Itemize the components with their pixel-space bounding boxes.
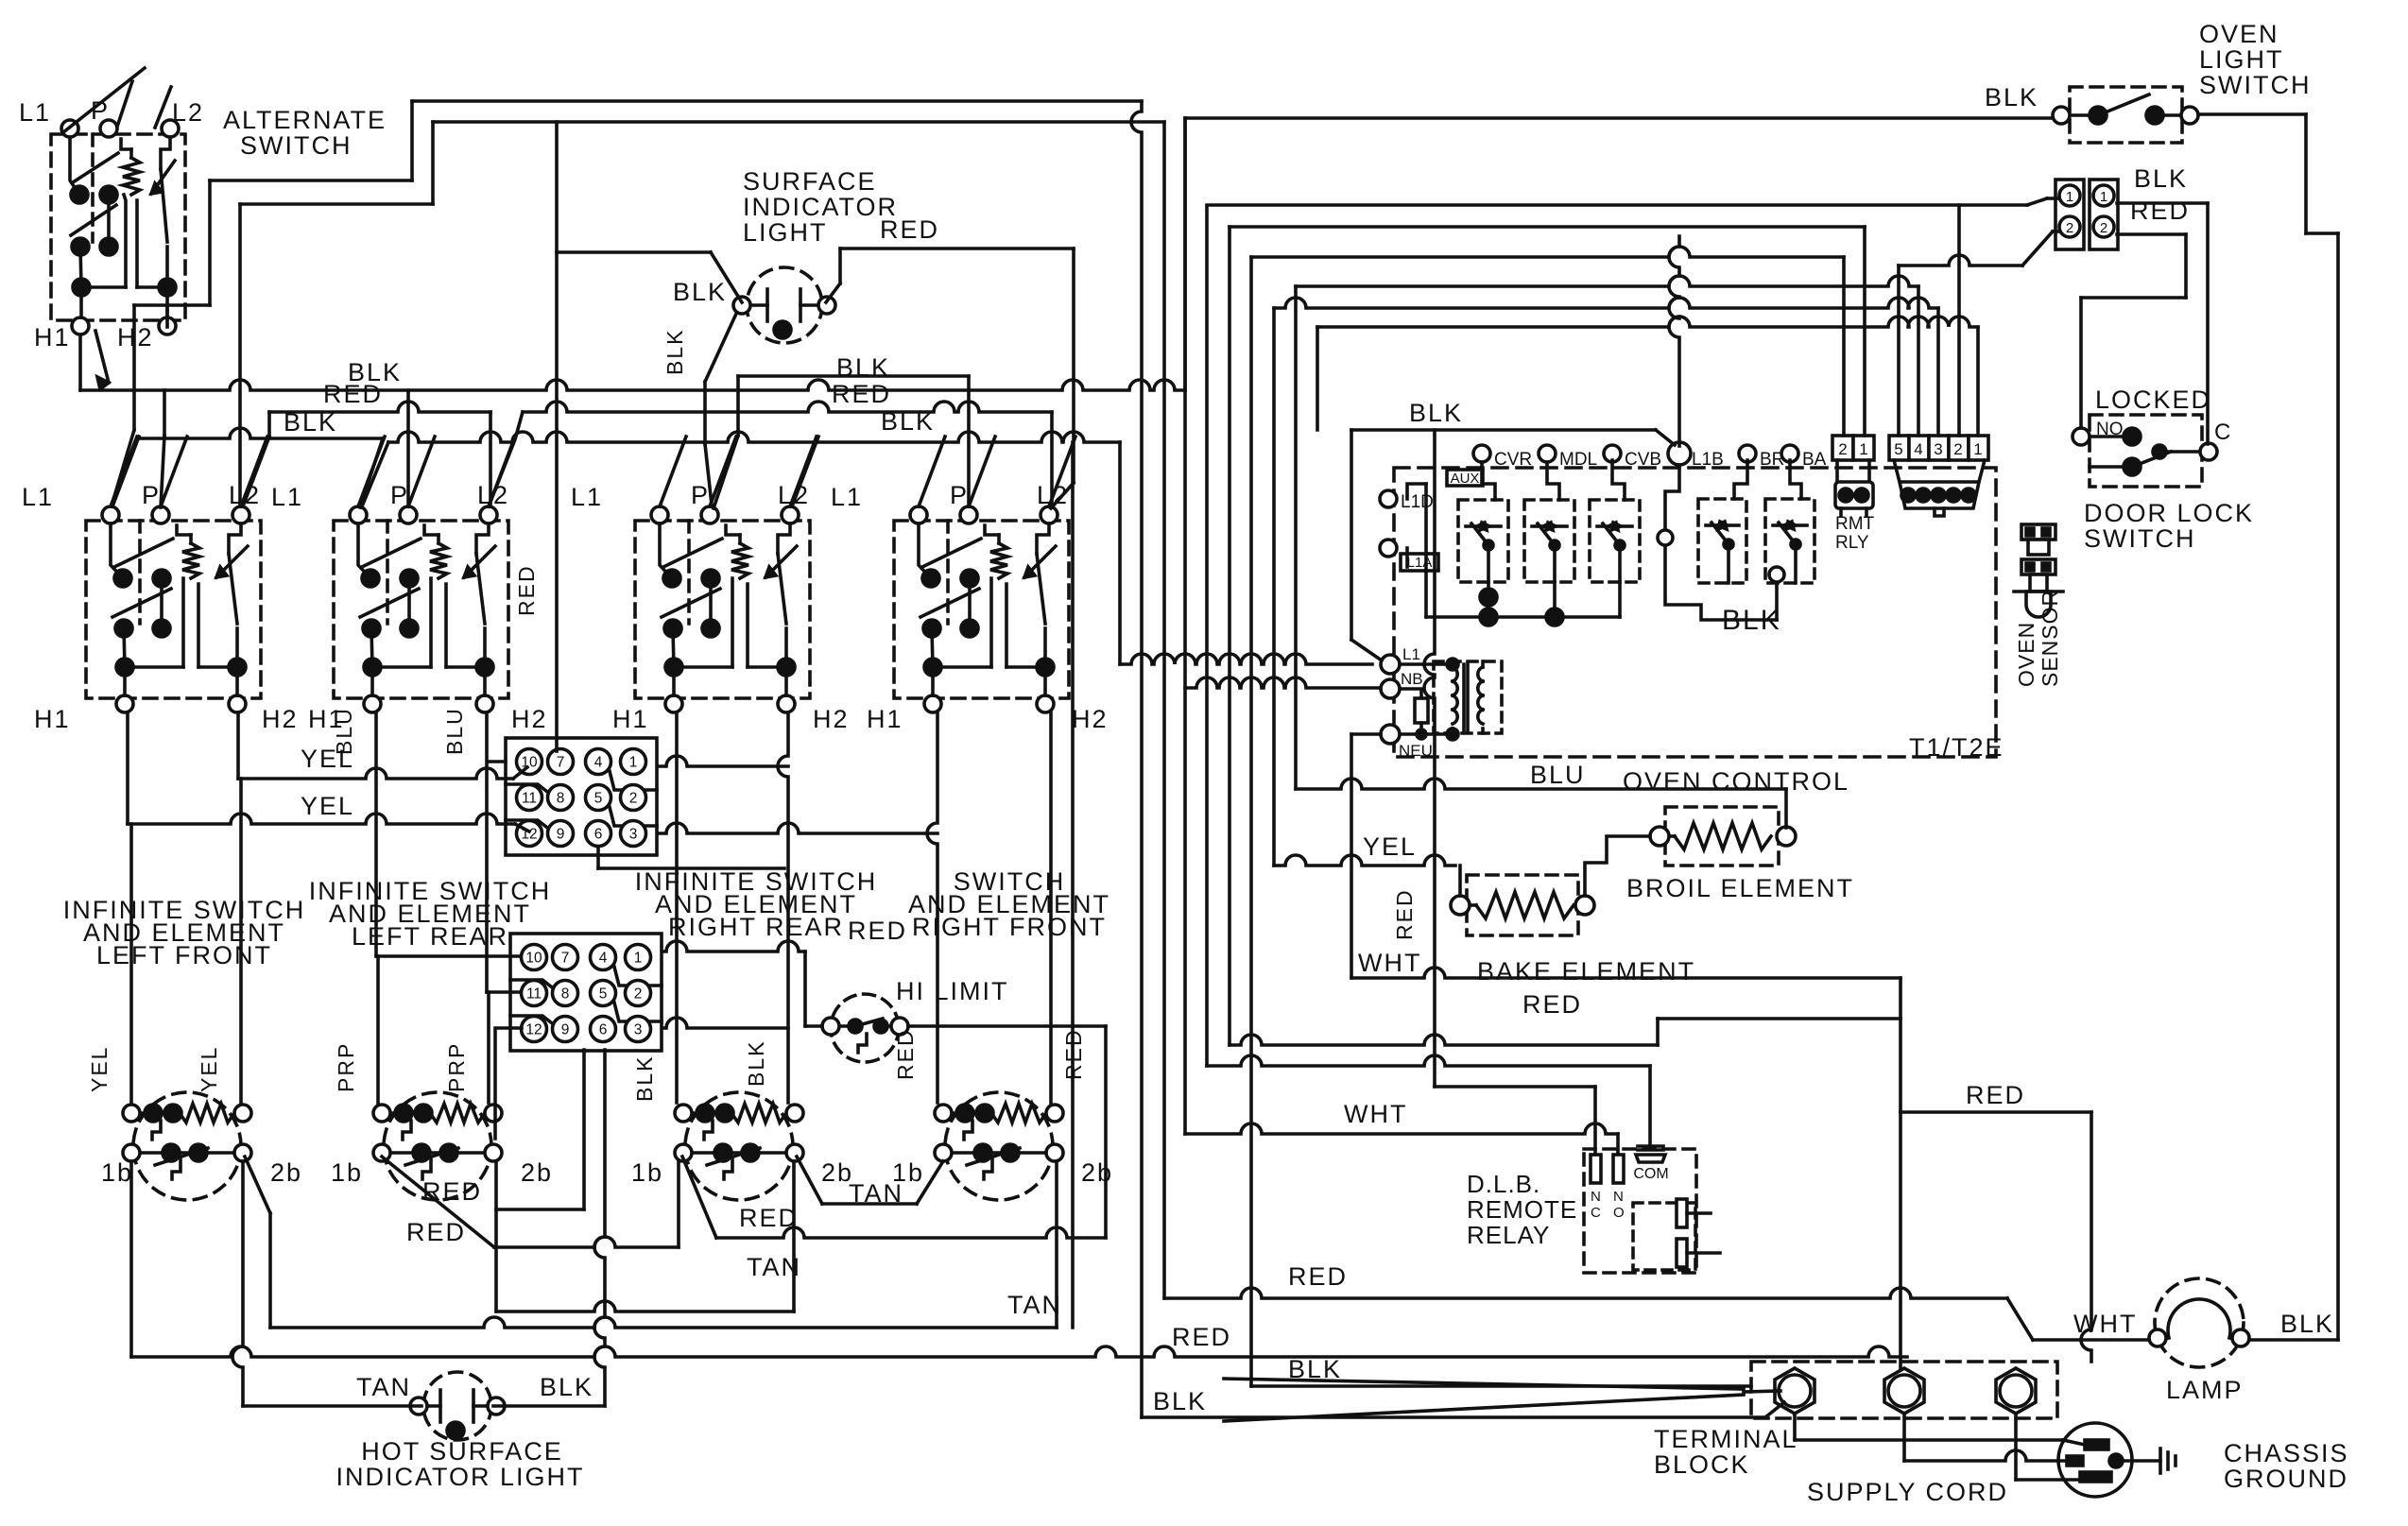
svg-text:BLK: BLK (2280, 1310, 2334, 1338)
label WHT lamp (2073, 1310, 2137, 1338)
wire surface left diag (705, 314, 736, 505)
labels box1 terminals (22, 481, 299, 733)
label BLK 1500 (1153, 1387, 1207, 1415)
wire H2 box4 drop (1049, 712, 1053, 1103)
connector 1/2 left (2055, 180, 2084, 249)
svg-text:H1: H1 (34, 323, 71, 351)
svg-text:COM: COM (1633, 1166, 1668, 1182)
svg-text:RED: RED (1172, 1323, 1231, 1351)
connector block 1 (506, 738, 657, 855)
oven light switch (2053, 87, 2198, 143)
label YEL 2 (301, 792, 354, 820)
svg-text:4: 4 (594, 755, 603, 771)
label BLK bus2 (836, 353, 890, 382)
svg-text:12: 12 (525, 1022, 542, 1038)
svg-text:1: 1 (629, 755, 638, 771)
terminal block (1751, 1362, 2057, 1418)
svg-text:BLK: BLK (673, 278, 727, 306)
svg-text:RELAY: RELAY (1467, 1221, 1550, 1249)
svg-text:YEL: YEL (197, 1046, 221, 1092)
label PRP rot2 (444, 1042, 469, 1092)
svg-text:6: 6 (594, 827, 603, 843)
label RED low (406, 1218, 466, 1246)
svg-text:O: O (1613, 1205, 1625, 1221)
svg-text:OVEN: OVEN (2014, 622, 2038, 687)
svg-text:L1: L1 (19, 98, 51, 127)
svg-text:P: P (91, 96, 110, 125)
svg-text:SWITCH: SWITCH (2084, 524, 2195, 553)
svg-text:L2: L2 (172, 98, 204, 127)
bus BLK low pair1 (112, 428, 383, 507)
wire H2 box2 PRP (487, 712, 520, 1103)
title right rear (635, 867, 877, 941)
svg-text:L1: L1 (22, 483, 54, 511)
wire s1 upper feeds (131, 779, 241, 1103)
label TAN hot (356, 1373, 411, 1401)
svg-text:YEL: YEL (301, 792, 354, 820)
oven control top terminals (1473, 442, 1827, 470)
svg-text:1: 1 (1859, 440, 1867, 458)
svg-text:ALTERNATE: ALTERNATE (223, 106, 387, 134)
wire s3-1b diag RED (682, 1157, 1106, 1238)
label BLK surface (673, 278, 727, 306)
circular infinite switch 3 (675, 1092, 803, 1200)
label BLK bus1 (348, 358, 402, 386)
label YEL 1 (301, 745, 354, 773)
label LOCKED (2095, 386, 2211, 414)
wire broil left (1585, 836, 1650, 896)
label BLK bus1b (284, 408, 337, 437)
svg-text:BLU: BLU (1530, 761, 1586, 789)
labels box2 terminals (271, 481, 548, 733)
wire BLK 1467 riser (1249, 257, 1253, 1386)
label RED surface (880, 215, 939, 244)
wire 5pin to 2pin (1899, 231, 2058, 436)
svg-text:BLU: BLU (442, 707, 467, 755)
wire RED 1106 (1230, 227, 1901, 1045)
bus BLK pair1 (80, 380, 1185, 507)
infinite switch box 4 (894, 506, 1069, 712)
svg-text:SENSOR: SENSOR (2038, 590, 2062, 687)
wire BLK to oven light (1185, 118, 2053, 390)
infinite switch box 1 (86, 506, 261, 712)
label HI LIMIT (896, 977, 1009, 1005)
label RED rot hilimit (1061, 1028, 1086, 1080)
label AUX box (1447, 470, 1483, 487)
label OVEN SENSOR (2014, 590, 2062, 687)
wire oven light to lamp drop (2198, 114, 2338, 1340)
svg-text:5: 5 (1894, 440, 1902, 458)
oven ctl junctions (1407, 484, 1620, 626)
svg-text:LAMP: LAMP (2166, 1376, 2244, 1404)
svg-text:BLK: BLK (1722, 605, 1781, 636)
label RED 1177 (1966, 1081, 2025, 1109)
alternate switch (51, 120, 185, 334)
svg-text:DOOR LOCK: DOOR LOCK (2084, 499, 2254, 527)
label RED rot 589 (514, 564, 539, 616)
wire hot light BLK side (493, 1404, 605, 1408)
oven ctl relay leads (1482, 460, 1801, 500)
svg-text:L1: L1 (1402, 645, 1420, 663)
svg-text:C: C (2214, 420, 2230, 445)
label TERMINAL BLOCK (1654, 1425, 1798, 1479)
svg-text:NEU: NEU (1399, 742, 1433, 760)
wire nested 346 (1317, 317, 1978, 436)
labels 1b 2b sw4 (892, 1158, 1113, 1187)
wire H2 box3 drop (778, 712, 788, 1103)
svg-text:3: 3 (634, 1022, 643, 1038)
supply plug (2058, 1423, 2132, 1497)
chassis ground (2123, 1449, 2176, 1473)
svg-text:H1: H1 (34, 705, 71, 733)
label BLK surface vert (662, 329, 687, 375)
label T1/T2E (1909, 733, 2004, 762)
label WHT mid (1358, 949, 1421, 977)
wire s2-2b drop (496, 1161, 794, 1312)
wire H1 box4 drop (927, 712, 937, 1103)
label BLK 1467 (1288, 1355, 1342, 1383)
broil element (1650, 807, 1796, 866)
label RED riser (739, 1204, 799, 1232)
label BLK inside (1722, 605, 1781, 636)
label RMT RLY (1835, 514, 1875, 553)
svg-text:TAN: TAN (1007, 1291, 1062, 1319)
svg-text:2: 2 (634, 986, 643, 1003)
label RED diag (422, 1177, 482, 1206)
svg-text:TAN: TAN (849, 1179, 903, 1208)
svg-text:7: 7 (561, 951, 570, 967)
supply cord (1224, 1379, 1744, 1421)
svg-text:1b: 1b (631, 1158, 663, 1187)
labels box3 terminals (571, 481, 850, 733)
label RED 1106 (1522, 990, 1582, 1019)
wire c3 block1 (659, 823, 937, 833)
wire L1 ovenctl (1120, 442, 1372, 664)
label LAMP (2166, 1376, 2244, 1404)
switch arms box2 (358, 437, 515, 506)
hi-limit switch (822, 994, 908, 1062)
label RED 1374 (1288, 1262, 1348, 1291)
wire alt H2 drop (165, 305, 169, 327)
wire NC lead long (1424, 430, 1595, 1155)
infinite switch box 2 (334, 506, 508, 712)
svg-text:1: 1 (2100, 189, 2107, 205)
svg-text:BA: BA (1802, 450, 1827, 470)
wire BLU broil (1296, 286, 1786, 828)
svg-text:RED: RED (739, 1204, 799, 1232)
relay box MDL (1524, 500, 1574, 582)
wire H1 box2 PRP (376, 712, 520, 1103)
svg-text:GROUND: GROUND (2224, 1465, 2348, 1493)
wire s1-2b drop TAN (232, 1161, 421, 1406)
circular infinite switch 1 (123, 1092, 251, 1200)
DLB relay box (1584, 1146, 1720, 1273)
wire BLK 1500 (1142, 1402, 1784, 1417)
svg-text:YEL: YEL (1363, 832, 1417, 861)
switch arms box3 (660, 437, 817, 506)
relay box BR (1698, 499, 1746, 583)
label OVEN LIGHT SWITCH (2199, 20, 2311, 99)
svg-text:WHT: WHT (1358, 949, 1421, 977)
wire hi limit right (908, 1026, 1106, 1238)
svg-text:HOT SURFACE: HOT SURFACE (361, 1437, 563, 1466)
svg-text:11: 11 (526, 986, 542, 1003)
wire nested 219 (1207, 198, 2058, 436)
svg-text:LIGHT: LIGHT (743, 218, 828, 247)
svg-text:RED: RED (1288, 1262, 1348, 1291)
connector block 2 (510, 934, 662, 1051)
title left front (63, 896, 305, 969)
svg-text:BLK: BLK (284, 408, 337, 437)
wire doorlock BLK (2117, 203, 2208, 444)
wire H1 box1 YEL (128, 712, 529, 832)
wire doorlock RED (2081, 234, 2186, 428)
svg-text:LIGHT: LIGHT (2199, 45, 2284, 74)
svg-text:PRP: PRP (444, 1042, 469, 1092)
svg-text:H2: H2 (262, 705, 299, 733)
wire nested 272 (1251, 247, 1844, 436)
svg-text:NB: NB (1401, 670, 1423, 688)
title left rear (309, 877, 551, 951)
svg-text:4: 4 (1914, 440, 1922, 458)
oven sensor (2014, 524, 2063, 617)
svg-text:8: 8 (557, 791, 565, 807)
svg-text:BLK: BLK (836, 353, 890, 382)
svg-text:H1: H1 (612, 705, 649, 733)
hot surface indicator light (410, 1372, 505, 1440)
svg-text:1b: 1b (101, 1158, 133, 1187)
labels 1b 2b sw2 (331, 1158, 553, 1187)
svg-text:RIGHT REAR: RIGHT REAR (668, 913, 844, 941)
svg-text:BLK: BLK (540, 1373, 593, 1401)
svg-text:2: 2 (629, 791, 638, 807)
svg-text:N: N (1613, 1189, 1624, 1205)
label BAKE ELEMENT (1477, 957, 1695, 986)
svg-text:BLK: BLK (662, 329, 687, 375)
label BLU (1530, 761, 1586, 789)
svg-text:11: 11 (522, 791, 537, 807)
bus RED pair1 (243, 402, 490, 506)
svg-text:L1B: L1B (1692, 450, 1724, 470)
svg-text:TAN: TAN (356, 1373, 411, 1401)
svg-text:L1: L1 (831, 483, 863, 511)
bus BLK low pair2 (362, 432, 1120, 1328)
svg-text:CVB: CVB (1625, 450, 1661, 470)
label BLK hot (540, 1373, 593, 1401)
label TAN upper (849, 1179, 903, 1208)
svg-text:RED: RED (514, 564, 539, 616)
svg-text:SWITCH: SWITCH (240, 131, 352, 160)
label BLU rot1 (332, 707, 356, 755)
wire YEL bake (1274, 308, 1460, 896)
svg-text:BLK: BLK (632, 1055, 657, 1102)
svg-text:1b: 1b (331, 1158, 363, 1187)
label DLB REMOTE RELAY (1467, 1170, 1577, 1249)
wire s1-1b drop (129, 1161, 133, 1357)
wire L1B riser (1669, 236, 1679, 446)
xfmr hookup (1400, 659, 1458, 740)
wire bus1 drop long (1131, 101, 1142, 1417)
label RED bottom (1172, 1323, 1231, 1351)
wire hex jumpers (1795, 1414, 2085, 1480)
wire supply tip (1744, 1391, 1780, 1392)
wire RED bottom long (131, 1346, 1907, 1357)
label YEL rot1 (87, 1046, 112, 1092)
svg-text:BROIL ELEMENT: BROIL ELEMENT (1626, 874, 1854, 902)
surface indicator light (733, 267, 835, 343)
relay box BA (1765, 499, 1815, 583)
connector 1/2 right (2090, 180, 2118, 249)
svg-text:BLK: BLK (744, 1040, 768, 1087)
label HOT SURFACE INDICATOR LIGHT (335, 1437, 584, 1491)
wire c10 left (490, 760, 506, 763)
wire s4-2b drop (1055, 1161, 1058, 1328)
wire hi limit left (805, 952, 822, 1026)
svg-text:BLK: BLK (2134, 164, 2188, 193)
svg-text:L1: L1 (571, 483, 603, 511)
label ALTERNATE SWITCH (223, 106, 387, 160)
svg-text:RED: RED (422, 1177, 482, 1206)
label SURFACE INDICATOR LIGHT (743, 167, 898, 247)
svg-text:2b: 2b (270, 1158, 302, 1187)
svg-text:N: N (1591, 1189, 1601, 1205)
terminal L1D (1380, 490, 1434, 512)
svg-text:5: 5 (594, 791, 603, 807)
wire BLK surface light (557, 122, 742, 751)
label TAN s4 (1007, 1291, 1062, 1319)
label YEL rot2 (197, 1046, 221, 1092)
label TAN mid (747, 1253, 801, 1281)
label OVEN CONTROL (1623, 767, 1849, 796)
svg-text:7: 7 (557, 755, 565, 771)
wire BLK 1467 (1251, 1384, 1751, 1388)
svg-text:AUX: AUX (1451, 471, 1480, 487)
svg-text:MDL: MDL (1559, 450, 1597, 470)
svg-text:TAN: TAN (747, 1253, 801, 1281)
svg-text:SWITCH: SWITCH (2199, 71, 2311, 99)
svg-text:REMOTE: REMOTE (1467, 1195, 1577, 1224)
labels BLK RED pins (2130, 164, 2190, 225)
svg-text:TERMINAL: TERMINAL (1654, 1425, 1798, 1453)
svg-text:BLOCK: BLOCK (1654, 1450, 1750, 1479)
svg-text:WHT: WHT (1344, 1100, 1407, 1128)
label RED rot b4a (893, 1028, 918, 1080)
svg-text:2: 2 (1838, 440, 1847, 458)
wire c12 block2 drop (495, 1028, 522, 1139)
label alternate switch terminals (19, 96, 204, 351)
svg-text:INDICATOR: INDICATOR (743, 193, 898, 221)
bus1 BLK top (412, 101, 1142, 204)
switch arms box1 (111, 437, 267, 506)
oven control box (1394, 468, 1996, 757)
svg-text:P: P (691, 481, 710, 509)
svg-text:P: P (390, 481, 409, 509)
wire step L1-box1 (112, 180, 412, 503)
svg-text:RED: RED (406, 1218, 466, 1246)
svg-text:OVEN CONTROL: OVEN CONTROL (1623, 767, 1849, 796)
svg-text:SUPPLY CORD: SUPPLY CORD (1807, 1478, 2008, 1506)
wire c1 block2 (664, 941, 805, 952)
svg-text:P: P (142, 481, 161, 509)
svg-text:RED: RED (1392, 888, 1417, 940)
label PRP rot1 (334, 1042, 358, 1092)
label SUPPLY CORD (1807, 1478, 2008, 1506)
L1B inner wiring (1658, 465, 1784, 620)
label BLU rot2 (442, 707, 467, 755)
label BLK lamp (2280, 1310, 2334, 1338)
door lock switch (2073, 415, 2217, 487)
svg-text:H2: H2 (511, 705, 548, 733)
svg-text:2: 2 (2066, 220, 2073, 236)
svg-text:2b: 2b (1081, 1158, 1113, 1187)
svg-text:RED: RED (848, 917, 907, 945)
alt switch arms (63, 68, 171, 132)
wire H2 box1 YEL (238, 712, 527, 779)
svg-text:1: 1 (2066, 189, 2073, 205)
label DOOR LOCK SWITCH (2084, 499, 2254, 553)
wire H1 box3 drop (675, 712, 679, 1103)
wire s2-2b spur (496, 1050, 584, 1209)
svg-text:8: 8 (561, 986, 570, 1003)
svg-text:RED: RED (1061, 1028, 1086, 1080)
svg-text:RED: RED (880, 215, 939, 244)
wire c1 block1 (659, 756, 788, 766)
svg-text:D.L.B.: D.L.B. (1467, 1170, 1540, 1198)
svg-text:RED: RED (893, 1028, 918, 1080)
label RED bus1 (323, 380, 383, 408)
svg-text:PRP: PRP (334, 1042, 358, 1092)
wire c6 block1 (598, 848, 784, 868)
wire c6 block2 drop (594, 1050, 605, 1406)
lamp (2149, 1278, 2249, 1367)
svg-text:BLK: BLK (881, 407, 935, 436)
labels box4 terminals (831, 481, 1109, 733)
terminal L1A (1380, 540, 1438, 571)
svg-text:RED: RED (832, 380, 891, 408)
svg-text:L1A: L1A (1407, 555, 1433, 571)
svg-text:LOCKED: LOCKED (2095, 386, 2211, 414)
label BLK bus2b (881, 407, 935, 436)
svg-text:SURFACE: SURFACE (743, 167, 877, 196)
label RED hilimit (848, 917, 907, 945)
wire s3-2b s4-1b TAN (797, 1157, 943, 1204)
svg-text:BLK: BLK (1288, 1355, 1342, 1383)
svg-text:RLY: RLY (1835, 533, 1869, 553)
svg-text:H2: H2 (1072, 705, 1109, 733)
svg-text:9: 9 (561, 1022, 570, 1038)
label RED rot bake (1392, 888, 1417, 940)
bus2 top (433, 120, 1164, 124)
svg-text:RED: RED (323, 380, 383, 408)
label CHASSIS GROUND (2224, 1439, 2349, 1493)
svg-text:L1: L1 (271, 483, 303, 511)
label WHT 1200 (1344, 1100, 1407, 1128)
labels 1b 2b sw1 (101, 1158, 302, 1187)
circular infinite switch 2 (373, 1092, 502, 1200)
svg-text:LEFT FRONT: LEFT FRONT (96, 941, 272, 969)
label RED bus2 (832, 380, 891, 408)
svg-text:OVEN: OVEN (2199, 20, 2279, 48)
label C (2214, 420, 2230, 445)
wire NEU ovenctl (1351, 732, 1381, 736)
svg-text:RMT: RMT (1835, 514, 1875, 534)
transformer (1434, 661, 1502, 733)
bus RED pair2 (489, 402, 1052, 506)
svg-text:1: 1 (1973, 440, 1982, 458)
bake element (1451, 875, 1594, 935)
wire lamp right (2249, 1338, 2338, 1342)
svg-text:BLK: BLK (1985, 83, 2038, 111)
